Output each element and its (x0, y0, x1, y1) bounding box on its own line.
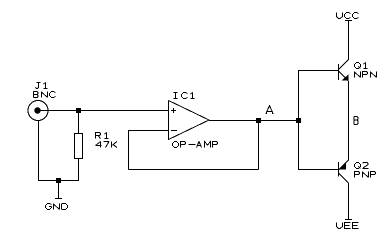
wire op-amp output (209, 120, 296, 122)
op-amp - input marker (171, 130, 177, 132)
node B label (354, 117, 358, 125)
resistor R1 (75, 134, 83, 159)
label BNC (34, 92, 56, 98)
wire feedback right vertical to node A (258, 120, 260, 170)
transistor Q2 emitter (339, 160, 349, 170)
label Q1 (355, 63, 368, 69)
wire J1 down to ground rail (38, 121, 40, 182)
transistor Q1 emitter arrow (342, 74, 349, 80)
transistor Q2 collector (339, 173, 349, 183)
connector J1 (BNC) (28, 101, 48, 121)
label VEE (337, 223, 359, 229)
wire R1 down to ground rail (78, 159, 80, 182)
wire Q1 base (299, 70, 339, 72)
op-amp + input marker (171, 108, 176, 113)
label 47K (96, 142, 118, 148)
transistor Q2 emitter arrow (340, 163, 347, 170)
wire op-amp inverting input (128, 130, 169, 132)
wire base rail vertical (298, 70, 300, 170)
wire feedback bottom horizontal (129, 169, 259, 171)
label OP-AMP (173, 142, 218, 148)
label PNP (355, 172, 376, 178)
power VEE (345, 183, 352, 220)
transistor Q1 collector (339, 60, 349, 70)
label NPN (355, 72, 377, 78)
label R1 (96, 133, 109, 139)
label IC1 (174, 93, 195, 99)
ground (55, 183, 62, 199)
label Q2 (355, 163, 369, 169)
label VCC (337, 13, 359, 19)
node junction R1 top (76, 108, 81, 113)
wire feedback left vertical (128, 131, 130, 170)
wire junction to R1 (78, 110, 80, 134)
wire emitter rail B (348, 81, 350, 160)
op-amp U1 triangle (169, 101, 210, 140)
power VCC (345, 21, 352, 61)
transistor Q1 base bar (338, 64, 340, 80)
transistor Q1 emitter (339, 71, 349, 81)
wire J1 to op-amp + input (40, 110, 169, 112)
wire Q2 base (299, 169, 339, 171)
transistor Q2 base bar (338, 162, 340, 177)
label J1 (36, 83, 48, 89)
node A label (266, 106, 274, 114)
node junction ground (56, 178, 61, 183)
label GND (46, 204, 68, 210)
node A junction (256, 118, 261, 123)
wire ground rail horizontal (38, 180, 79, 182)
node junction base rail (296, 118, 301, 123)
